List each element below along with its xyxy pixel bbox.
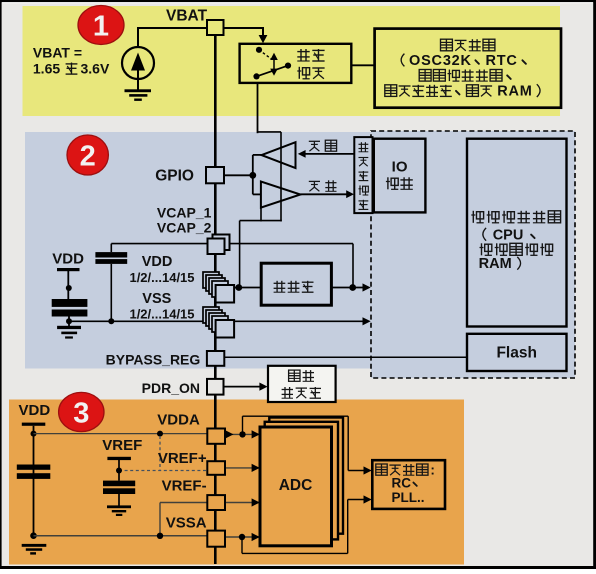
svg-text:PLL..: PLL.. <box>392 490 425 505</box>
svg-text:VSS: VSS <box>142 291 171 307</box>
svg-text:VREF-: VREF- <box>162 477 207 494</box>
svg-text:VSSA: VSSA <box>166 515 207 532</box>
svg-text:VBAT: VBAT <box>166 8 208 25</box>
svg-text:VDDA: VDDA <box>157 412 200 429</box>
svg-text:VDD: VDD <box>19 402 51 419</box>
svg-text:1: 1 <box>93 11 109 43</box>
svg-text:PDR_ON: PDR_ON <box>142 380 200 396</box>
svg-text:VCAP_1: VCAP_1 <box>157 205 212 221</box>
svg-text:RC: RC <box>392 475 412 490</box>
svg-text:BYPASS_REG: BYPASS_REG <box>106 351 201 367</box>
svg-text:VBAT =: VBAT = <box>33 45 82 61</box>
svg-text:1/2/...14/15: 1/2/...14/15 <box>129 270 194 285</box>
svg-text:1.65: 1.65 <box>33 61 60 77</box>
svg-text:RAM: RAM <box>479 256 512 272</box>
svg-text::: : <box>430 462 435 477</box>
svg-text:CPU: CPU <box>493 227 524 243</box>
svg-text:3: 3 <box>73 398 89 430</box>
svg-text:VDD: VDD <box>52 251 84 268</box>
svg-text:ADC: ADC <box>279 477 313 494</box>
svg-text:VREF+: VREF+ <box>158 450 207 467</box>
svg-text:Flash: Flash <box>496 344 536 361</box>
svg-text:VCAP_2: VCAP_2 <box>157 220 212 236</box>
svg-text:GPIO: GPIO <box>155 168 194 185</box>
svg-text:1/2/...14/15: 1/2/...14/15 <box>129 307 194 322</box>
svg-text:VDD: VDD <box>142 254 173 270</box>
svg-text:RAM: RAM <box>497 83 532 99</box>
svg-text:IO: IO <box>392 159 408 176</box>
svg-text:3.6V: 3.6V <box>81 61 110 77</box>
svg-text:RTC: RTC <box>486 53 518 69</box>
svg-text:OSC32K: OSC32K <box>409 53 472 69</box>
svg-text:2: 2 <box>80 141 96 173</box>
svg-text:VREF: VREF <box>102 437 142 454</box>
